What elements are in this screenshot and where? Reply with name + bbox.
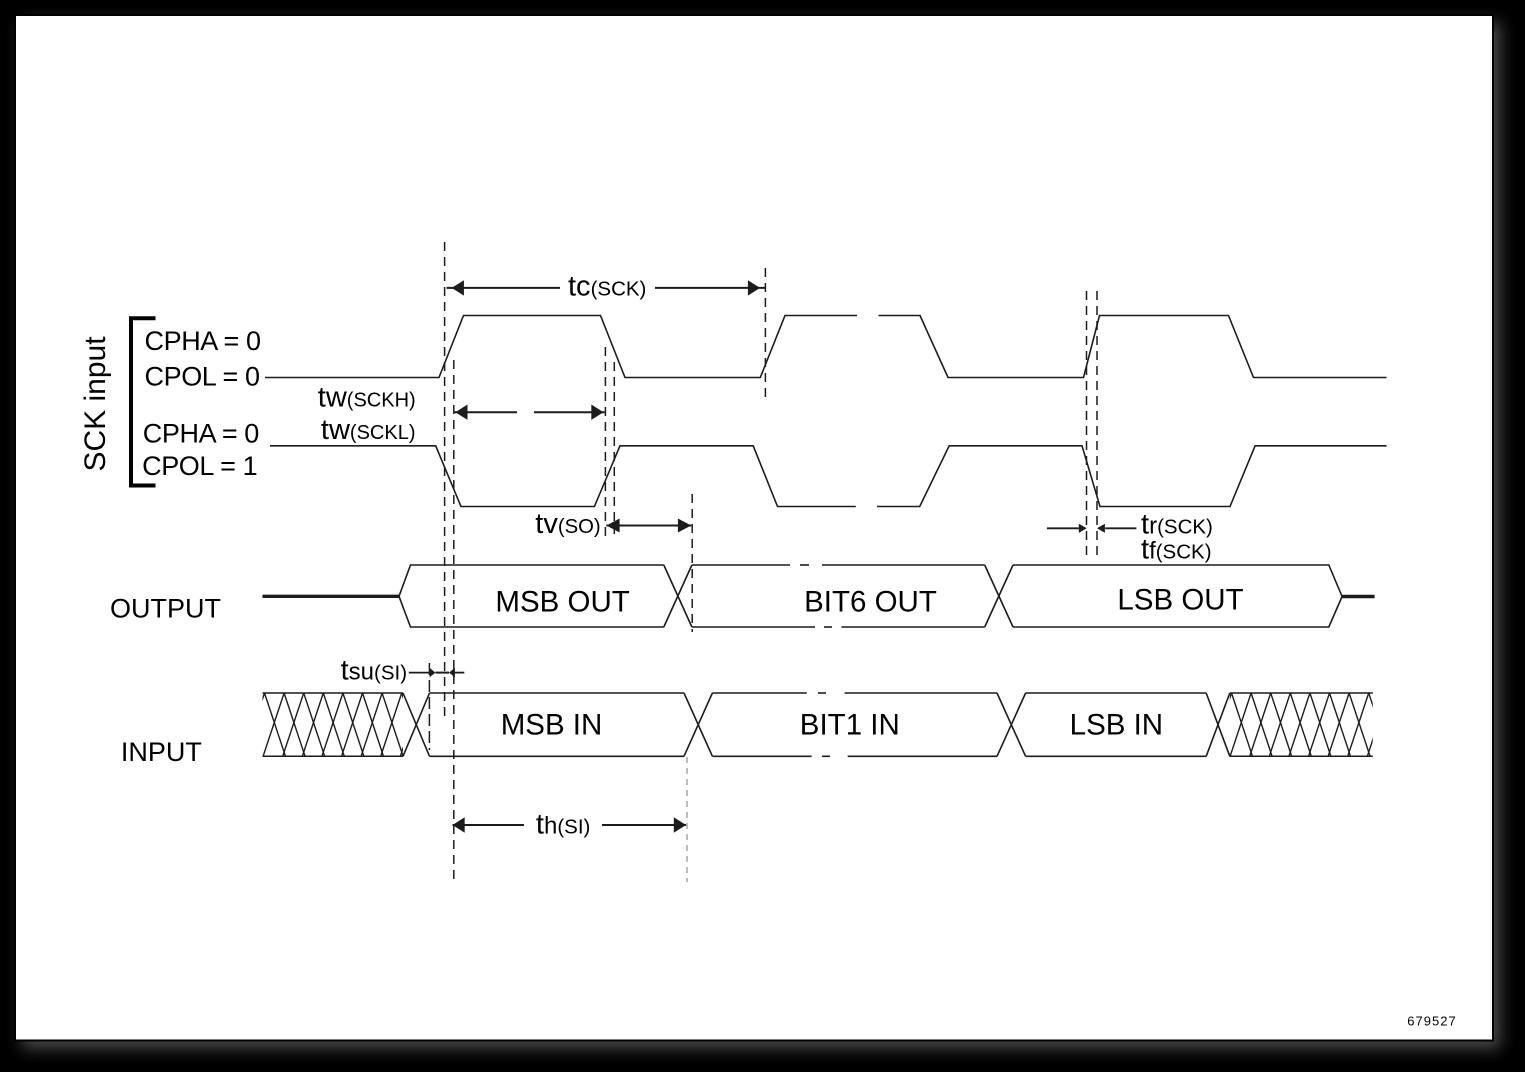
svg-text:CPOL = 0: CPOL = 0 [145, 362, 260, 392]
node INPUT crossover hatch/MSB [403, 693, 430, 756]
wire OUTPUT bus LSB OUT hexagon [1013, 565, 1342, 627]
svg-text:LSB OUT: LSB OUT [1117, 584, 1243, 617]
label tr(SCK) text [1141, 509, 1213, 541]
svg-text:INPUT: INPUT [121, 737, 202, 767]
label CPOL = 0 [145, 362, 260, 392]
label CPHA = 0 (first) [145, 326, 261, 356]
label tv(SO) dimension arrow [606, 519, 691, 533]
wire INPUT bus LSB IN hexagon [1026, 693, 1207, 756]
node output-valid dashed line [691, 494, 693, 632]
label SCK input (rotated) [79, 336, 112, 472]
svg-text:CPOL = 1: CPOL = 1 [142, 451, 257, 481]
label figure number 679527 [1407, 1014, 1456, 1029]
node SCK fall end dashed line [613, 362, 615, 534]
svg-text:MSB OUT: MSB OUT [495, 585, 629, 618]
label tr(SCK) tf(SCK) dimension arrow [1047, 524, 1137, 533]
label tsu(SI) text [341, 655, 407, 687]
label MSB IN [501, 709, 603, 742]
label BIT6 OUT [804, 586, 937, 619]
label tc(SCK) text [568, 271, 646, 303]
label CPOL = 1 [142, 451, 257, 481]
label tc(SCK) dimension arrow [447, 280, 766, 295]
wire OUTPUT idle level (bold) [263, 595, 400, 598]
wire INPUT dont-care hatch left [244, 693, 443, 756]
wire OUTPUT trailing idle level (bold) [1342, 595, 1375, 598]
label MSB OUT [495, 585, 629, 618]
label OUTPUT [110, 594, 221, 624]
label tv(SO) text [535, 508, 600, 540]
node tr start dashed line [1086, 291, 1088, 557]
bracket for SCK input group [131, 318, 156, 485]
node input-valid edge dashed line [428, 663, 430, 750]
wire OUTPUT bus BIT6 OUT hexagon [692, 565, 985, 627]
svg-text:BIT6 OUT: BIT6 OUT [804, 586, 937, 619]
node INPUT crossover MSB/BIT1 [684, 693, 712, 756]
label LSB IN [1070, 709, 1163, 742]
node INPUT crossover BIT1/LSB [997, 693, 1026, 756]
node INPUT crossover LSB/hatch [1206, 693, 1230, 756]
label th(SI) dimension arrow [453, 817, 687, 832]
node SCK falling edge dashed line [604, 347, 606, 536]
label tsu(SI) dimension arrow [409, 668, 465, 678]
label INPUT [121, 737, 202, 767]
node SCK rising edge dashed line [444, 242, 446, 722]
wire SCK clock waveform CPHA=0 CPOL=1 [270, 446, 1387, 507]
label th(SI) text [536, 809, 590, 841]
svg-text:679527: 679527 [1407, 1014, 1456, 1029]
label CPHA = 0 (second) [143, 419, 259, 449]
svg-text:LSB IN: LSB IN [1070, 709, 1163, 742]
label tf(SCK) text [1141, 534, 1212, 566]
label tw(SCKL) text [321, 414, 416, 446]
node tr end dashed line [1096, 291, 1098, 557]
label tw(SCKH) tw(SCKL) dimension arrow [455, 405, 605, 420]
svg-text:BIT1 IN: BIT1 IN [800, 709, 900, 742]
node clock mid-high dashed line [453, 360, 455, 879]
label BIT1 IN [800, 709, 900, 742]
node OUTPUT crossover MSB/BIT6 [664, 565, 692, 627]
wire SCK clock waveform CPHA=0 CPOL=0 [265, 316, 1387, 378]
wire INPUT bus MSB IN hexagon [430, 693, 685, 756]
svg-text:SCK input: SCK input [79, 336, 112, 472]
node tc period end dashed line [764, 268, 766, 403]
node OUTPUT crossover BIT6/LSB [985, 565, 1013, 627]
svg-text:OUTPUT: OUTPUT [110, 594, 221, 624]
wire INPUT dont-care hatch right [1211, 693, 1410, 756]
svg-text:CPHA = 0: CPHA = 0 [143, 419, 259, 449]
label tw(SCKH) text [318, 382, 416, 414]
svg-text:CPHA = 0: CPHA = 0 [145, 326, 261, 356]
svg-text:MSB IN: MSB IN [501, 709, 603, 742]
wire INPUT bus BIT1 IN hexagon [712, 693, 997, 756]
node th end dashed line [686, 757, 688, 882]
wire OUTPUT bus MSB OUT hexagon [399, 565, 664, 627]
label LSB OUT [1117, 584, 1243, 617]
